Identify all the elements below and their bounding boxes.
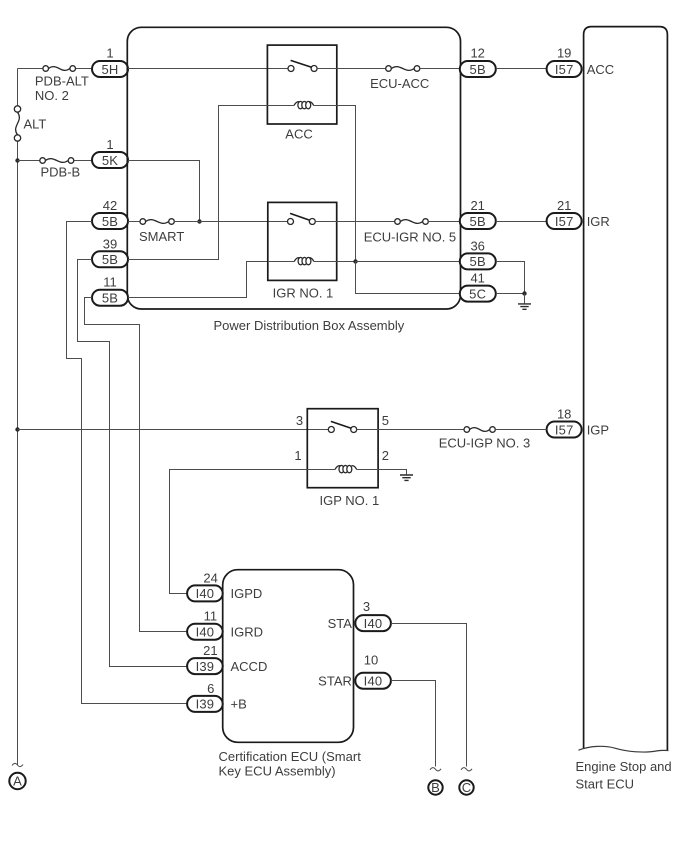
Engine Stop and Start ECU box [576, 27, 672, 792]
svg-text:21: 21 [557, 198, 571, 213]
fuse ECU-IGR NO. 5 [364, 219, 456, 245]
svg-text:A: A [13, 774, 22, 789]
svg-text:2: 2 [382, 448, 389, 463]
wire main left vertical [17, 69, 19, 766]
relay IGP pin labels [294, 413, 389, 463]
wire 41/5C to ground [496, 293, 525, 295]
wire 21/5B to I57 [496, 221, 547, 223]
svg-text:PDB-ALT: PDB-ALT [35, 74, 89, 89]
connector 21/I39 ACCD [187, 643, 267, 674]
wire junction to 36/5B [356, 261, 461, 263]
wire 5K to SMART junction [128, 161, 200, 222]
junction dot SMART [197, 219, 201, 223]
svg-text:C: C [462, 780, 471, 795]
fuse PDB-ALT NO. 2 [35, 66, 89, 103]
Power Distribution Box Assembly box [127, 27, 460, 333]
wire 36/5B to ground [496, 262, 525, 294]
fusible link ALT [14, 106, 46, 141]
connector 42/5B [92, 198, 128, 229]
svg-text:5K: 5K [102, 153, 118, 168]
svg-text:36: 36 [470, 238, 484, 253]
svg-text:NO. 2: NO. 2 [35, 88, 69, 103]
svg-text:Engine Stop and: Engine Stop and [576, 759, 672, 774]
svg-text:I57: I57 [555, 62, 574, 77]
connector 21/5B [460, 198, 496, 229]
wire IGP coil pin1 to IGPD [170, 470, 308, 594]
wire SMART to IGR relay [174, 221, 287, 223]
connector 41/5C [460, 271, 496, 302]
svg-text:STA: STA [328, 616, 353, 631]
wire STA to C [391, 624, 467, 767]
connector 5H pin 1 [92, 46, 128, 78]
squiggle wire end B [430, 768, 441, 771]
connector 24/I40 IGPD [187, 570, 262, 601]
connector 39/5B [92, 236, 128, 267]
wire ECU-ACC fuse to 12/5B [420, 68, 460, 70]
connector I57 pin 19 [547, 46, 582, 78]
svg-text:1: 1 [294, 448, 301, 463]
connector 6/I39 +B [187, 681, 247, 712]
svg-text:ACC: ACC [587, 62, 614, 77]
fuse ECU-IGP NO. 3 [439, 427, 531, 451]
svg-text:5H: 5H [101, 62, 118, 77]
svg-text:I39: I39 [196, 697, 215, 712]
svg-text:ECU-IGP NO. 3: ECU-IGP NO. 3 [439, 436, 531, 451]
svg-text:+B: +B [231, 697, 247, 712]
svg-text:21: 21 [470, 198, 484, 213]
squiggle wire end A [12, 763, 23, 766]
relay ACC coil [267, 101, 336, 108]
svg-text:IGR: IGR [587, 214, 610, 229]
svg-text:IGP: IGP [587, 422, 609, 437]
svg-text:ECU-IGR NO. 5: ECU-IGR NO. 5 [364, 229, 456, 244]
junction dot ground [522, 291, 526, 295]
wire 5H row to ACC relay switch [128, 68, 288, 70]
relay IGR switch [288, 213, 395, 224]
connector 5K pin 1 [92, 137, 128, 168]
connector 11/I40 IGRD [187, 609, 263, 640]
svg-text:3: 3 [296, 413, 303, 428]
relay IGR NO. 1 box [268, 202, 337, 280]
wire STAR to B [391, 681, 436, 767]
wire top-left horizontal to 5H [18, 68, 93, 70]
svg-text:12: 12 [470, 46, 484, 61]
svg-text:I40: I40 [196, 625, 215, 640]
junction dot IGP branch [15, 427, 19, 431]
wire ACC coil left branch down to 39/5B [128, 106, 294, 260]
svg-text:IGRD: IGRD [231, 625, 264, 640]
ground symbol right [518, 294, 531, 310]
svg-text:5B: 5B [102, 252, 118, 267]
circle C [459, 780, 473, 795]
svg-text:11: 11 [204, 609, 218, 624]
svg-text:PDB-B: PDB-B [41, 165, 81, 180]
relay IGP coil [307, 465, 378, 472]
relay IGP switch [328, 421, 464, 432]
ground symbol IGP [400, 475, 413, 480]
fuse PDB-B [40, 158, 80, 180]
wire 42/5B to +B [67, 222, 188, 704]
svg-text:5: 5 [382, 413, 389, 428]
fuse SMART [139, 219, 184, 244]
svg-text:I40: I40 [196, 586, 215, 601]
wire ACC switch to ECU-ACC fuse [317, 68, 386, 70]
svg-text:6: 6 [207, 681, 214, 696]
wire ECU-IGR fuse to 21/5B [428, 221, 460, 223]
connector I57 pin 18 [547, 407, 582, 438]
wire PDB-B row [18, 160, 93, 162]
svg-text:Power Distribution Box Assembl: Power Distribution Box Assembly [214, 318, 405, 333]
connector 10/I40 STAR [318, 653, 391, 689]
svg-text:B: B [431, 780, 440, 795]
svg-text:ALT: ALT [24, 117, 47, 132]
svg-text:5B: 5B [470, 254, 486, 269]
relay IGR coil [268, 257, 356, 264]
svg-text:Start ECU: Start ECU [576, 776, 635, 791]
squiggle wire end C [461, 768, 472, 771]
svg-text:3: 3 [363, 599, 370, 614]
svg-text:ACCD: ACCD [231, 659, 268, 674]
svg-text:11: 11 [103, 275, 117, 290]
connector 12/5B [460, 46, 496, 78]
svg-text:I57: I57 [555, 422, 574, 437]
fuse ECU-ACC [370, 66, 429, 91]
circle A [9, 773, 25, 789]
circle B [428, 780, 442, 795]
wire junction down to 41/5C [356, 262, 461, 294]
svg-text:19: 19 [557, 46, 571, 61]
connector 3/I40 STA [328, 599, 391, 631]
relay ACC box [267, 45, 336, 124]
junction dot coils to 36/5B [353, 259, 357, 263]
svg-text:IGPD: IGPD [231, 586, 263, 601]
wire 11/5B to IGR coil [128, 262, 294, 298]
svg-text:24: 24 [203, 570, 217, 585]
svg-text:5C: 5C [469, 286, 486, 301]
Certification ECU box [219, 570, 362, 779]
svg-text:Key ECU Assembly): Key ECU Assembly) [219, 763, 336, 778]
wire IGP coil to ground [378, 470, 406, 476]
svg-text:ACC: ACC [285, 126, 312, 141]
connector 36/5B [460, 238, 496, 269]
svg-text:IGR NO. 1: IGR NO. 1 [273, 286, 334, 301]
wire ECU-IGP fuse to I57 [495, 429, 546, 431]
connector 11/5B [92, 275, 128, 306]
svg-text:5B: 5B [102, 291, 118, 306]
svg-text:STAR: STAR [318, 674, 352, 689]
wire IGP row left [18, 429, 329, 431]
svg-text:21: 21 [203, 643, 217, 658]
svg-text:41: 41 [470, 271, 484, 286]
svg-text:I57: I57 [555, 214, 574, 229]
wire 42/5B to SMART fuse [128, 221, 140, 223]
svg-text:ECU-ACC: ECU-ACC [370, 76, 429, 91]
svg-text:1: 1 [106, 46, 113, 61]
svg-text:Certification ECU (Smart: Certification ECU (Smart [219, 749, 362, 764]
wire 39/5B to ACCD [78, 260, 188, 667]
svg-text:IGP NO. 1: IGP NO. 1 [320, 493, 380, 508]
junction dot PDB-B branch [15, 158, 19, 162]
svg-text:1: 1 [106, 137, 113, 152]
svg-text:39: 39 [103, 236, 117, 251]
connector I57 pin 21 [547, 198, 582, 229]
svg-text:I39: I39 [196, 659, 215, 674]
wire ACC coil right branch down [314, 106, 356, 262]
svg-text:5B: 5B [470, 62, 486, 77]
svg-text:5B: 5B [102, 214, 118, 229]
svg-text:I40: I40 [364, 674, 383, 689]
wire 12/5B to I57 [496, 68, 547, 70]
svg-text:10: 10 [364, 653, 378, 668]
svg-text:I40: I40 [364, 616, 383, 631]
svg-text:18: 18 [557, 407, 571, 422]
wire 11/5B to IGRD [85, 298, 188, 632]
relay ACC switch [288, 60, 317, 71]
svg-text:SMART: SMART [139, 229, 184, 244]
relay IGP NO. 1 box [307, 409, 378, 488]
svg-text:5B: 5B [470, 214, 486, 229]
svg-text:42: 42 [103, 198, 117, 213]
